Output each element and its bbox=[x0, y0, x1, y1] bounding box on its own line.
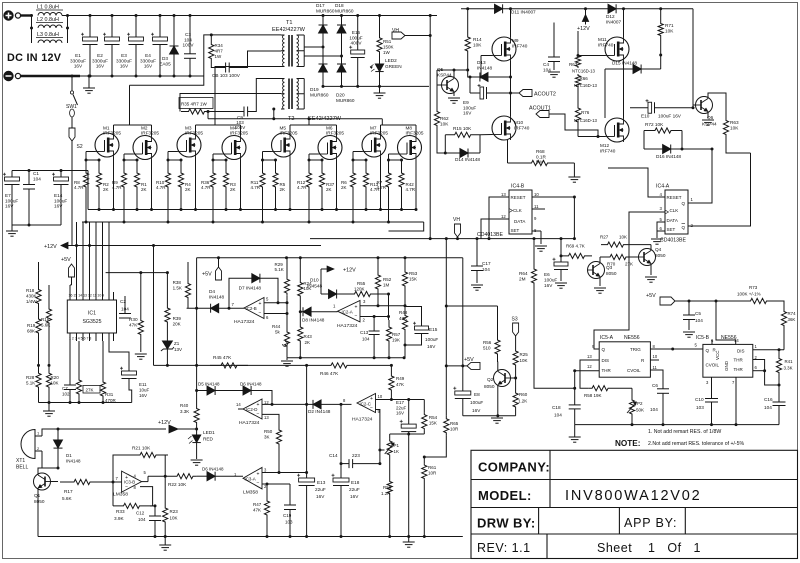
ground bbox=[379, 86, 381, 93]
wire bbox=[489, 197, 509, 239]
diode D14 bbox=[460, 149, 468, 158]
resistor R41 bbox=[778, 350, 780, 353]
svg-text:R53: R53 bbox=[409, 271, 418, 276]
resistor R51 bbox=[379, 16, 381, 30]
svg-text:11: 11 bbox=[653, 365, 658, 370]
wire pin2 line bbox=[262, 483, 290, 485]
wire bbox=[113, 157, 115, 210]
svg-text:8050: 8050 bbox=[606, 271, 617, 276]
svg-text:1M: 1M bbox=[383, 283, 390, 288]
svg-text:THR: THR bbox=[734, 367, 744, 372]
wire minus bus bbox=[80, 75, 204, 77]
svg-text:12: 12 bbox=[501, 214, 506, 219]
resistor R1 bbox=[134, 160, 139, 200]
svg-text:102: 102 bbox=[62, 392, 70, 397]
svg-text:2.Not add remart RES. toleranc: 2.Not add remart RES. tolerance of +/-5% bbox=[648, 441, 745, 447]
wire pin6 bbox=[264, 313, 287, 315]
svg-text:R39: R39 bbox=[173, 316, 182, 321]
wire 445col bbox=[445, 239, 447, 416]
wire bbox=[510, 9, 512, 37]
svg-text:NTC16D-13: NTC16D-13 bbox=[572, 69, 596, 74]
wire bbox=[643, 131, 645, 150]
resistor R58 bbox=[588, 386, 612, 391]
svg-text:3300uF: 3300uF bbox=[70, 58, 86, 63]
svg-text:C16: C16 bbox=[764, 397, 773, 402]
transistor M8 bbox=[398, 136, 422, 160]
resistor R70 bbox=[604, 254, 632, 259]
svg-text:HA17324: HA17324 bbox=[239, 420, 260, 426]
resistor R71 bbox=[660, 9, 662, 22]
resistor R50 bbox=[276, 426, 281, 448]
svg-text:47K: 47K bbox=[129, 323, 138, 328]
resistor R29 bbox=[286, 258, 288, 277]
wire bbox=[218, 258, 220, 267]
svg-text:Q2: Q2 bbox=[487, 377, 494, 382]
ground bbox=[574, 425, 576, 437]
svg-text:104: 104 bbox=[554, 413, 562, 418]
wire bbox=[273, 109, 275, 119]
wire bbox=[166, 273, 168, 297]
svg-text:L1 0.8uH: L1 0.8uH bbox=[37, 5, 59, 11]
ground bbox=[573, 163, 575, 177]
wire bbox=[262, 403, 272, 405]
node bbox=[388, 535, 391, 538]
capacitor CB bbox=[211, 62, 225, 68]
svg-text:22uF: 22uF bbox=[396, 405, 407, 410]
wire bbox=[98, 200, 100, 210]
wire bbox=[12, 224, 61, 226]
svg-text:D5 IN4148: D5 IN4148 bbox=[198, 382, 220, 387]
transistor M4 bbox=[222, 136, 246, 160]
svg-text:MODEL:: MODEL: bbox=[478, 488, 532, 503]
capacitor E10 bbox=[630, 107, 648, 109]
diode D19 bbox=[322, 47, 324, 64]
wire bbox=[481, 55, 492, 57]
svg-text:+12V: +12V bbox=[577, 26, 590, 32]
svg-text:C1: C1 bbox=[33, 171, 39, 176]
wire bbox=[573, 197, 575, 239]
svg-text:E17: E17 bbox=[396, 400, 405, 405]
transistor M11 bbox=[605, 37, 629, 61]
svg-text:D14 IN4148: D14 IN4148 bbox=[455, 157, 480, 162]
svg-text:15K: 15K bbox=[409, 277, 417, 282]
svg-text:NTC16D-13: NTC16D-13 bbox=[574, 83, 598, 88]
resistor R28 bbox=[36, 365, 41, 395]
resistor R9 bbox=[121, 160, 126, 200]
wire thr12 bbox=[575, 370, 600, 372]
wire bbox=[104, 481, 122, 483]
svg-text:3.3K: 3.3K bbox=[784, 366, 793, 371]
svg-text:R35 4R7 1W: R35 4R7 1W bbox=[181, 102, 208, 107]
resistor R68 bbox=[508, 162, 528, 164]
svg-text:CD4013BE: CD4013BE bbox=[660, 238, 686, 244]
svg-text:IRF3205: IRF3205 bbox=[326, 131, 344, 136]
svg-text:R45 47K: R45 47K bbox=[213, 355, 232, 360]
wire bbox=[381, 119, 383, 125]
svg-text:D17: D17 bbox=[316, 3, 325, 8]
svg-text:104: 104 bbox=[121, 307, 129, 312]
diode D10 bbox=[321, 293, 329, 295]
wire IC1 pin bbox=[95, 333, 97, 341]
svg-text:4.7R: 4.7R bbox=[251, 185, 261, 190]
resistor R19 bbox=[36, 312, 41, 340]
wire HV gnd bus bbox=[323, 85, 429, 87]
svg-text:+5V: +5V bbox=[646, 293, 656, 299]
svg-text:Q: Q bbox=[682, 201, 686, 206]
resistor R74 bbox=[781, 307, 786, 330]
svg-text:R34: R34 bbox=[215, 43, 224, 48]
svg-text:1 2 3 4 5 6 7 8: 1 2 3 4 5 6 7 8 bbox=[69, 337, 91, 341]
svg-text:C3: C3 bbox=[185, 32, 191, 37]
svg-text:16V: 16V bbox=[544, 283, 553, 288]
svg-text:0.1R: 0.1R bbox=[536, 154, 547, 159]
wire bbox=[225, 200, 227, 210]
svg-text:19K: 19K bbox=[392, 338, 400, 343]
resistor R43 bbox=[298, 316, 303, 352]
wire bbox=[38, 536, 463, 538]
power +12V b bbox=[320, 269, 322, 294]
svg-text:R63: R63 bbox=[730, 120, 739, 125]
capacitor E16 bbox=[357, 16, 359, 51]
transistor M5 bbox=[272, 133, 296, 157]
svg-text:R16: R16 bbox=[41, 317, 50, 322]
svg-text:+: + bbox=[259, 301, 262, 307]
svg-text:INV800WA12V02: INV800WA12V02 bbox=[565, 488, 702, 504]
svg-text:IRF3205: IRF3205 bbox=[280, 131, 298, 136]
svg-text:5k: 5k bbox=[275, 330, 281, 335]
wire IC1 pin bbox=[102, 333, 104, 341]
svg-text:2K: 2K bbox=[326, 187, 332, 192]
transistor Q2 bbox=[494, 370, 511, 387]
wire bbox=[497, 362, 499, 372]
svg-text:IC2-D: IC2-D bbox=[246, 407, 257, 412]
wire bbox=[578, 55, 605, 57]
svg-text:10R: 10R bbox=[450, 426, 459, 431]
inductor L3 bbox=[38, 40, 62, 43]
capacitor E13 bbox=[306, 473, 308, 479]
resistor R46 bbox=[307, 364, 328, 366]
svg-text:T1: T1 bbox=[286, 20, 293, 26]
svg-text:HA17324: HA17324 bbox=[337, 323, 358, 329]
svg-text:+5V: +5V bbox=[202, 272, 212, 278]
transistor Q1 bbox=[34, 473, 51, 490]
capacitor E4 bbox=[159, 16, 161, 38]
diode D17 bbox=[322, 16, 324, 26]
resistor R5 bbox=[273, 160, 278, 200]
wire gnd bus2 bbox=[287, 357, 404, 359]
capacitor E6 bbox=[560, 256, 562, 262]
svg-text:APP BY:: APP BY: bbox=[624, 516, 677, 530]
minus terminal bbox=[3, 71, 13, 81]
wire x306 col bbox=[306, 365, 308, 472]
wire bbox=[87, 171, 89, 210]
wire pin3 line bbox=[262, 472, 307, 474]
node bbox=[210, 33, 213, 36]
svg-text:IRF740: IRF740 bbox=[598, 42, 614, 47]
svg-text:E10: E10 bbox=[641, 114, 650, 119]
resistor R69 bbox=[561, 253, 592, 258]
svg-text:R30: R30 bbox=[129, 317, 138, 322]
resistor R42 bbox=[399, 160, 404, 200]
wire gnd bus4 bbox=[575, 424, 779, 426]
svg-text:13: 13 bbox=[587, 354, 592, 359]
capacitor E7 bbox=[11, 171, 13, 178]
svg-text:R61: R61 bbox=[428, 465, 437, 470]
resistor R67 NTC bbox=[577, 40, 579, 54]
svg-text:C14: C14 bbox=[329, 453, 338, 458]
wire bbox=[389, 153, 398, 155]
svg-text:100V: 100V bbox=[183, 43, 195, 48]
svg-text:R14: R14 bbox=[473, 37, 482, 42]
ground btm2 bbox=[403, 541, 415, 543]
svg-text:R68: R68 bbox=[536, 149, 545, 154]
svg-text:IC4-A: IC4-A bbox=[656, 184, 670, 190]
svg-text:104: 104 bbox=[138, 517, 146, 522]
svg-text:E3: E3 bbox=[121, 53, 127, 58]
svg-text:Q1: Q1 bbox=[34, 493, 41, 498]
wire bbox=[195, 157, 197, 210]
svg-text:16 15 14 13 12 11 10 9: 16 15 14 13 12 11 10 9 bbox=[69, 294, 105, 298]
svg-text:100uF: 100uF bbox=[5, 198, 18, 203]
svg-text:Q: Q bbox=[706, 348, 710, 353]
svg-text:EE42/4227W: EE42/4227W bbox=[272, 27, 306, 33]
wire source bus bbox=[88, 209, 415, 211]
wire bbox=[510, 61, 512, 116]
switch SW1 bbox=[71, 76, 73, 91]
svg-text:R40: R40 bbox=[180, 403, 189, 408]
wire bbox=[21, 14, 32, 16]
wire pin3 bbox=[360, 305, 405, 307]
svg-text:EA05: EA05 bbox=[159, 62, 171, 67]
resistor R66 NTC bbox=[575, 74, 580, 88]
resistor R6 bbox=[350, 160, 355, 200]
plus terminal bbox=[3, 10, 13, 20]
svg-text:Q: Q bbox=[682, 225, 686, 230]
svg-text:R47: R47 bbox=[253, 502, 262, 507]
wire bbox=[429, 16, 431, 239]
transistor M9 bbox=[492, 37, 516, 61]
wire q1 emitter bbox=[37, 488, 39, 537]
svg-text:R76: R76 bbox=[581, 110, 590, 115]
capacitor C2 bbox=[124, 296, 126, 314]
wire bbox=[304, 46, 323, 48]
wire bbox=[623, 61, 625, 118]
svg-text:10K: 10K bbox=[51, 381, 59, 386]
wire bbox=[577, 126, 579, 137]
wire bbox=[437, 84, 442, 86]
svg-text:D16 IN4148: D16 IN4148 bbox=[656, 154, 681, 159]
svg-text:THR: THR bbox=[734, 358, 744, 363]
svg-text:10K: 10K bbox=[170, 516, 178, 521]
wire bbox=[692, 9, 694, 108]
svg-text:100V: 100V bbox=[235, 125, 246, 130]
wire R40 col bbox=[196, 258, 198, 404]
svg-text:16V: 16V bbox=[139, 393, 147, 398]
svg-text:LED2: LED2 bbox=[385, 58, 397, 63]
ground bbox=[560, 270, 562, 282]
svg-text:C10: C10 bbox=[695, 397, 704, 402]
wire pin8 bbox=[650, 348, 672, 350]
svg-text:R69 4.7K: R69 4.7K bbox=[566, 244, 585, 249]
svg-text:D1: D1 bbox=[66, 453, 72, 458]
resistor R45 bbox=[210, 363, 248, 368]
ground bbox=[88, 76, 90, 88]
svg-text:100uF: 100uF bbox=[349, 35, 362, 40]
svg-text:R59: R59 bbox=[383, 485, 392, 490]
node bbox=[37, 364, 40, 367]
svg-text:5W: 5W bbox=[536, 160, 544, 165]
capacitor C14 bbox=[340, 404, 342, 463]
wire IC1 pin bbox=[82, 292, 84, 300]
resistor R37 bbox=[319, 160, 324, 200]
svg-text:47K: 47K bbox=[253, 508, 261, 513]
svg-text:3.9K: 3.9K bbox=[114, 516, 125, 521]
ground btm bbox=[164, 537, 166, 546]
wire bbox=[708, 93, 726, 115]
wire bbox=[195, 125, 197, 133]
svg-text:DIS: DIS bbox=[602, 358, 610, 363]
wire bbox=[437, 133, 445, 153]
resistor R34 bbox=[210, 35, 212, 41]
svg-text:103: 103 bbox=[285, 520, 293, 525]
svg-text:16V: 16V bbox=[350, 494, 359, 499]
wire pin8 bbox=[532, 230, 541, 232]
svg-text:104: 104 bbox=[695, 318, 703, 323]
resistor R17 bbox=[60, 479, 104, 484]
wire IC1 pin bbox=[89, 292, 91, 300]
svg-text:LED1: LED1 bbox=[203, 430, 215, 435]
wire out7 bbox=[187, 307, 211, 309]
wire bbox=[136, 200, 138, 210]
wire bbox=[168, 151, 177, 153]
svg-text:+: + bbox=[355, 304, 358, 310]
svg-text:10uF: 10uF bbox=[139, 388, 150, 393]
svg-text:IC2-A: IC2-A bbox=[342, 310, 353, 315]
wire IC1 pin bbox=[76, 333, 78, 341]
capacitor C5 bbox=[688, 301, 690, 315]
resistor R38 bbox=[185, 276, 190, 305]
svg-text:−: − bbox=[257, 411, 260, 417]
wire bbox=[775, 301, 784, 307]
svg-text:SET: SET bbox=[511, 228, 520, 233]
svg-text:NE556: NE556 bbox=[624, 335, 640, 341]
svg-text:MUR860: MUR860 bbox=[316, 8, 335, 13]
wire bbox=[289, 157, 291, 210]
svg-text:M11: M11 bbox=[598, 37, 607, 42]
wire D2 line bbox=[272, 403, 313, 405]
svg-text:R48: R48 bbox=[399, 310, 408, 315]
svg-text:S3: S3 bbox=[512, 317, 518, 323]
svg-text:104: 104 bbox=[482, 267, 490, 272]
svg-text:16V: 16V bbox=[74, 64, 83, 69]
resistor R13 bbox=[363, 160, 368, 200]
wire bbox=[321, 200, 323, 210]
wire bbox=[650, 245, 652, 251]
wire bbox=[650, 264, 652, 276]
svg-text:P1: P1 bbox=[394, 443, 400, 448]
resistor R53 bbox=[404, 258, 406, 266]
wire bbox=[783, 330, 785, 350]
svg-text:3300uF: 3300uF bbox=[92, 58, 108, 63]
svg-text:MUR860: MUR860 bbox=[336, 98, 355, 103]
svg-text:M12: M12 bbox=[600, 143, 610, 148]
svg-text:R41: R41 bbox=[785, 359, 794, 364]
svg-text:VH: VH bbox=[453, 217, 460, 223]
svg-text:IC1: IC1 bbox=[88, 311, 96, 317]
resistor R32 bbox=[78, 341, 80, 374]
wire IC1 pin bbox=[76, 292, 78, 300]
svg-text:DATA: DATA bbox=[514, 219, 525, 224]
wire bbox=[275, 200, 277, 210]
svg-text:L3 0.8uH: L3 0.8uH bbox=[37, 32, 59, 38]
svg-text:8050: 8050 bbox=[34, 499, 45, 504]
svg-text:XT1: XT1 bbox=[16, 458, 25, 464]
svg-text:E11: E11 bbox=[139, 382, 147, 387]
svg-text:16V: 16V bbox=[427, 344, 436, 349]
svg-text:T2: T2 bbox=[288, 116, 295, 122]
svg-text:IRF740: IRF740 bbox=[514, 125, 530, 130]
diode D20 bbox=[341, 56, 343, 64]
svg-text:4R7: 4R7 bbox=[215, 49, 224, 54]
wire y434 line bbox=[390, 433, 425, 435]
svg-text:R64: R64 bbox=[519, 271, 528, 276]
svg-text:Q3: Q3 bbox=[606, 265, 613, 270]
svg-text:R56: R56 bbox=[483, 340, 492, 345]
svg-text:LM358: LM358 bbox=[243, 490, 258, 496]
wire bbox=[213, 153, 222, 155]
diode D8 bbox=[300, 311, 303, 313]
wire bbox=[51, 481, 59, 483]
svg-text:IN4548: IN4548 bbox=[307, 284, 323, 289]
svg-text:10K: 10K bbox=[473, 43, 482, 48]
svg-text:16V: 16V bbox=[316, 494, 325, 499]
inductor L1 bbox=[38, 13, 62, 16]
capacitor E3 bbox=[135, 16, 137, 38]
op-amp U-IC3-B bbox=[122, 471, 142, 492]
wire bbox=[657, 222, 665, 237]
svg-text:LM358: LM358 bbox=[113, 492, 128, 498]
wire bbox=[113, 125, 115, 133]
svg-text:1.5K: 1.5K bbox=[173, 286, 182, 291]
svg-text:2K: 2K bbox=[230, 187, 236, 192]
svg-text:GND: GND bbox=[724, 360, 729, 371]
svg-text:5.1K: 5.1K bbox=[275, 267, 284, 272]
svg-text:10K: 10K bbox=[665, 29, 674, 34]
svg-text:E2: E2 bbox=[97, 53, 103, 58]
svg-text:2K: 2K bbox=[185, 187, 191, 192]
svg-text:16V: 16V bbox=[463, 111, 472, 116]
wire bbox=[207, 112, 209, 119]
svg-text:104: 104 bbox=[184, 37, 192, 42]
wire IC1 pin bbox=[82, 333, 84, 341]
resistor R61 bbox=[423, 457, 425, 464]
node bbox=[154, 535, 157, 538]
svg-text:R66: R66 bbox=[580, 76, 589, 81]
wire R42 loop bbox=[389, 222, 424, 231]
wire bbox=[693, 104, 696, 106]
wire bbox=[599, 257, 601, 264]
wire bbox=[577, 88, 579, 104]
svg-text:HA17324: HA17324 bbox=[352, 417, 373, 423]
svg-text:10K: 10K bbox=[619, 235, 627, 240]
svg-text:D12: D12 bbox=[606, 14, 615, 19]
svg-text:HA17324: HA17324 bbox=[234, 319, 255, 325]
svg-text:R51: R51 bbox=[383, 39, 392, 44]
svg-text:4.7R: 4.7R bbox=[297, 185, 307, 190]
resistor R8 bbox=[83, 160, 88, 200]
resistor R25 bbox=[513, 346, 518, 370]
svg-text:2M: 2M bbox=[519, 277, 526, 282]
